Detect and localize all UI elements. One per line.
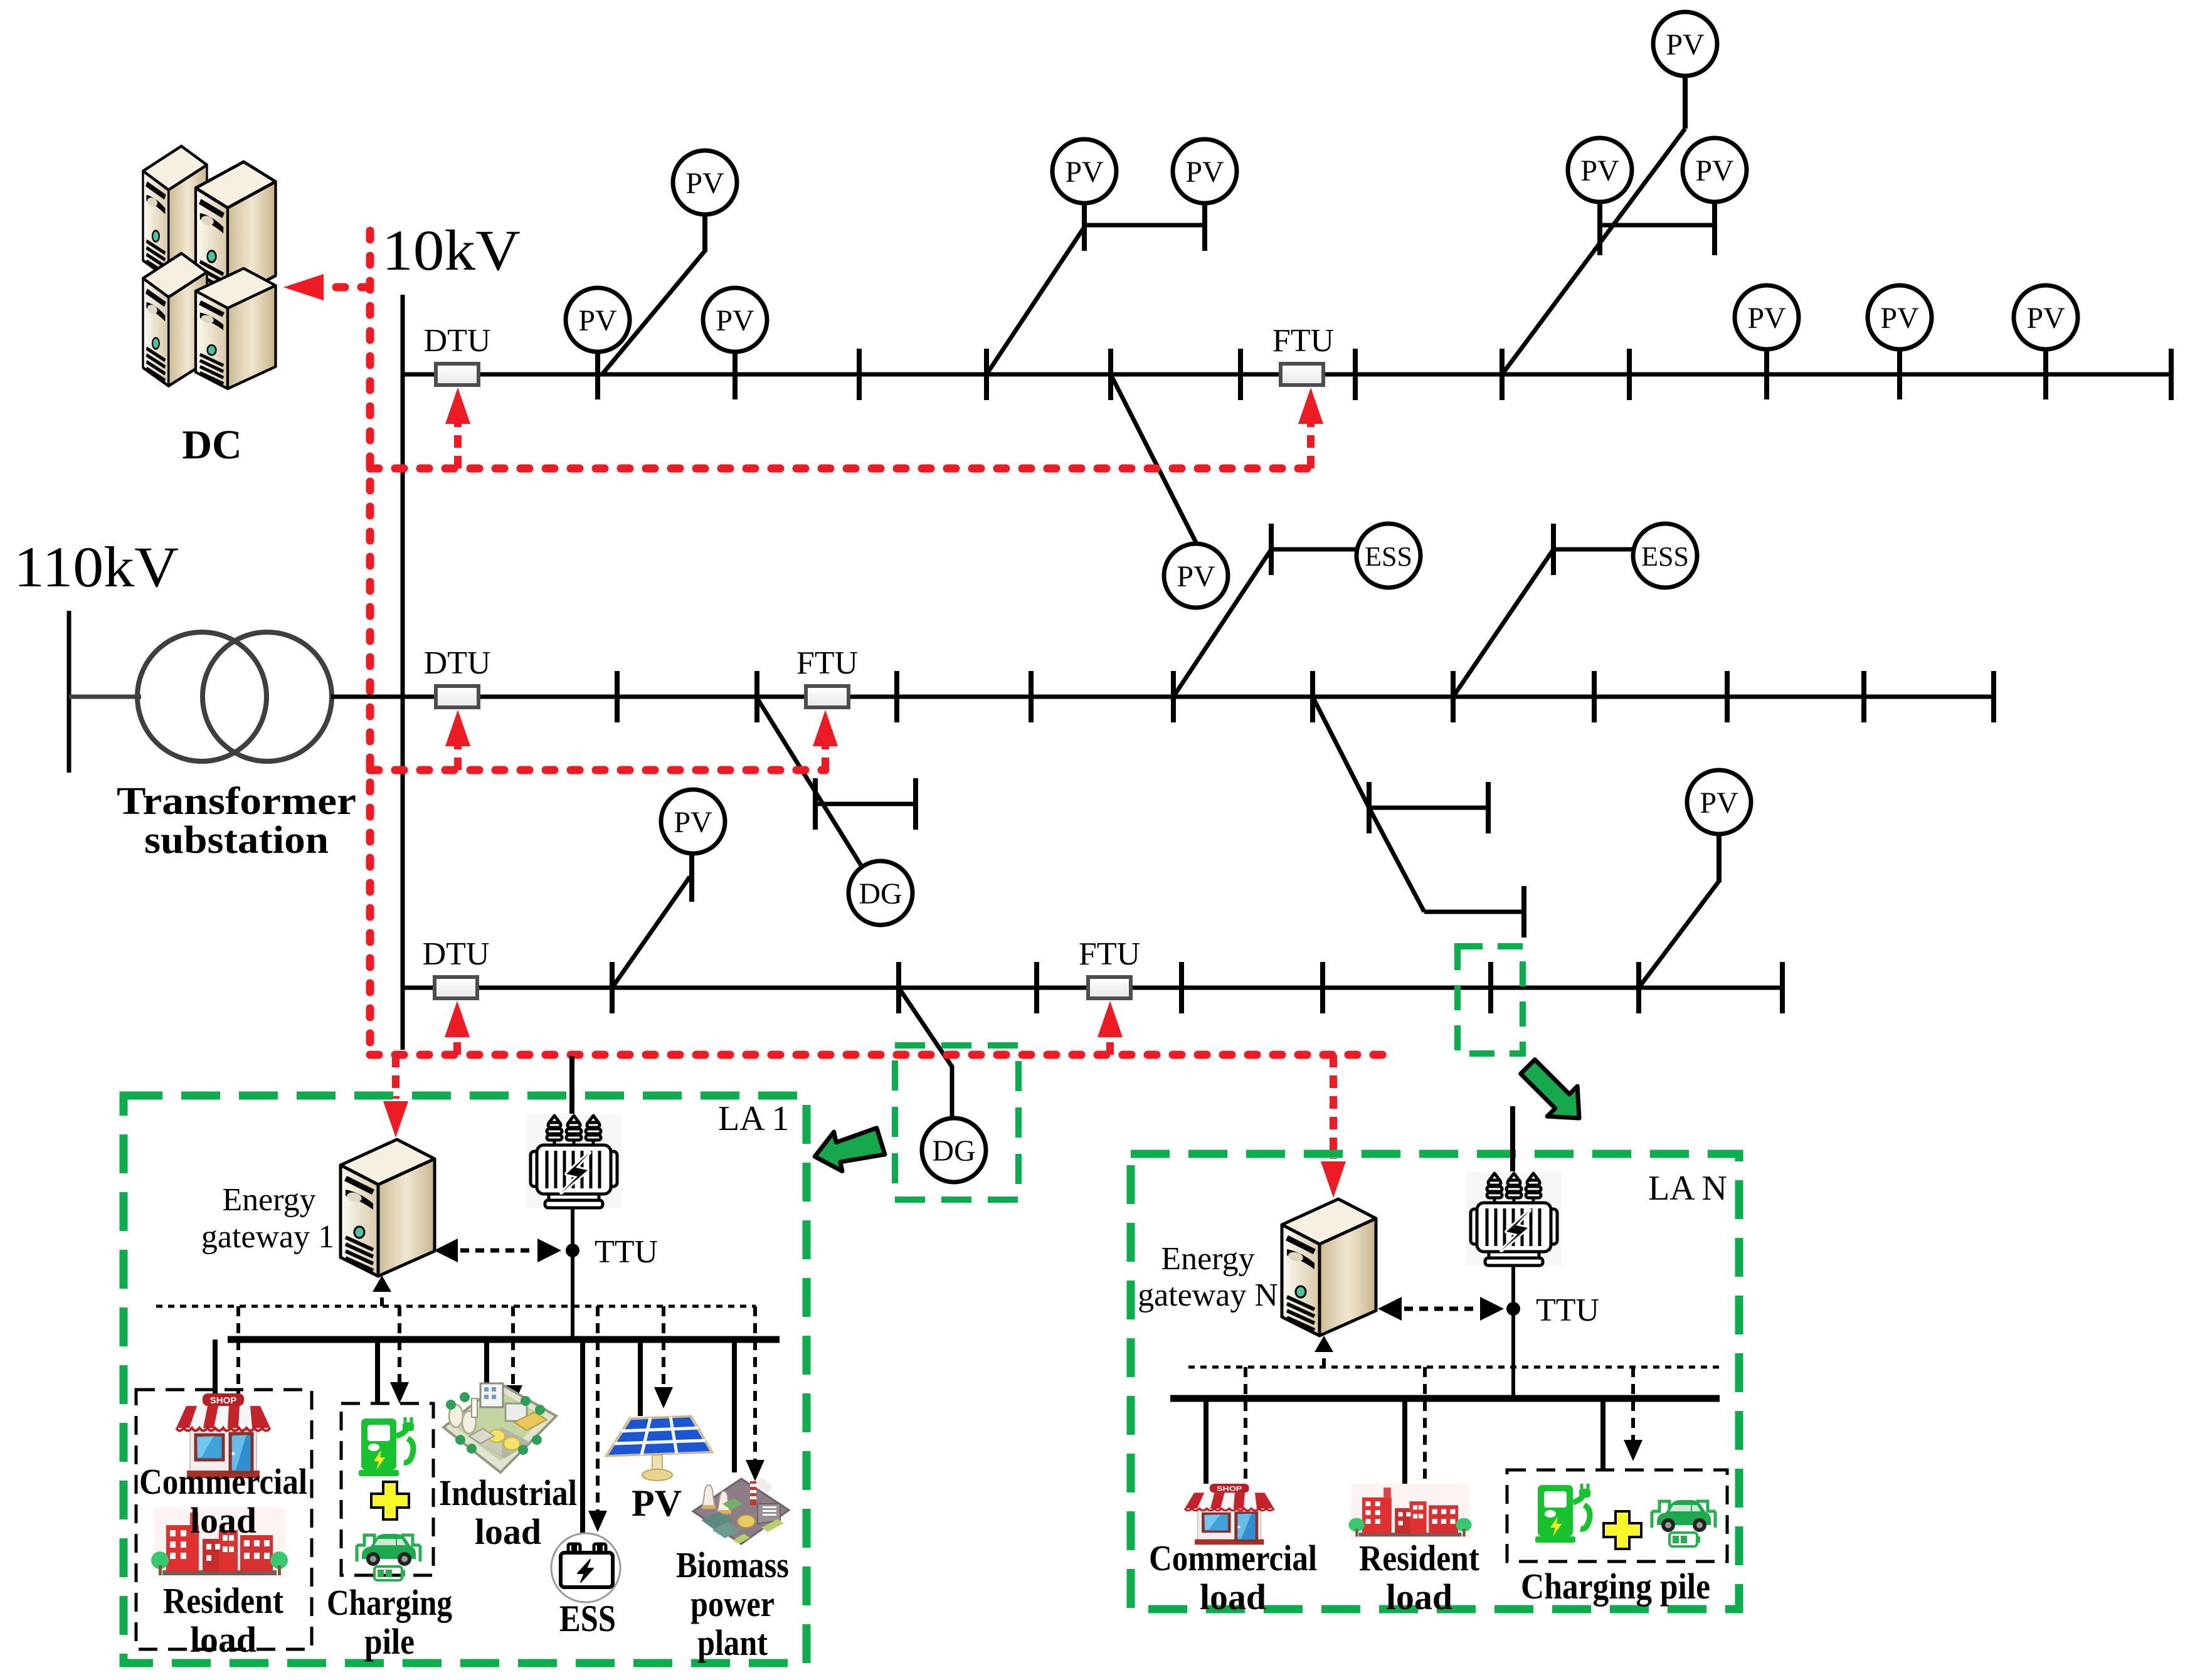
red comm arrow to FTU1 <box>1298 388 1323 468</box>
svg-text:Biomass: Biomass <box>676 1545 789 1585</box>
svg-text:ESS: ESS <box>559 1598 616 1639</box>
DTU box on feeder 2 <box>436 686 479 707</box>
comm drop arrow to industrial LA1 <box>504 1306 522 1407</box>
svg-text:gateway N: gateway N <box>1138 1277 1278 1313</box>
wire: drop to resident load LA N <box>1402 1398 1407 1484</box>
wire: LV bus LA N <box>1170 1395 1720 1402</box>
node tick feeder2 g <box>1452 671 1454 722</box>
wire: ESS2 tie <box>1553 547 1633 552</box>
wire: ESS1 tie <box>1271 547 1357 552</box>
PV unit PV2 <box>673 151 737 214</box>
wire: lateral to PV6 <box>1111 374 1196 542</box>
wire: PV13 stub <box>689 853 694 902</box>
red comm arrow to DC <box>283 274 370 300</box>
PV unit PV6 <box>1164 544 1228 608</box>
wire: drop to biomass plant LA1 <box>732 1339 737 1472</box>
node tick feeder1 g <box>1629 349 1630 400</box>
wire: feeder 1 bus <box>403 372 2171 377</box>
svg-text:110kV: 110kV <box>14 535 179 599</box>
comm double arrow gatewayN-TTU <box>1378 1297 1504 1321</box>
comm drop arrow to PV LA1 <box>654 1306 673 1408</box>
svg-text:DG: DG <box>932 1134 975 1168</box>
PV unit PV4 <box>1052 139 1116 203</box>
PV unit PV7 <box>1653 12 1717 76</box>
comm drop arrow to charging pile LA1 <box>390 1306 409 1403</box>
wire: lateral to ESS1 <box>1173 549 1271 697</box>
node tick ESS2 branch <box>1553 524 1554 575</box>
DTU box on feeder 1 <box>436 364 479 385</box>
comm arrow up to gateway N <box>1315 1336 1333 1367</box>
svg-text:Charging: Charging <box>327 1582 452 1623</box>
wire: PV3 stub <box>733 352 738 399</box>
wire: 110kV bus bar <box>67 611 71 773</box>
comm dotted bus LA N <box>1188 1366 1722 1369</box>
wire: drop to charging pile LA1 <box>375 1339 380 1405</box>
node tick feeder1 a <box>859 349 860 400</box>
node tick branch b3 right <box>1523 886 1525 938</box>
wire: drop to industrial load LA1 <box>484 1339 489 1395</box>
shop icon LA1 <box>176 1393 270 1478</box>
node tick feeder1 d <box>1240 349 1241 400</box>
wire: transformer LA N to LV bus through TTU <box>1511 1265 1515 1398</box>
resident buildings icon LA N <box>1348 1484 1471 1538</box>
plus sign LA1 <box>371 1482 409 1519</box>
svg-text:DG: DG <box>859 877 902 911</box>
wire: PV10 stub <box>1764 349 1769 399</box>
svg-text:FTU: FTU <box>1079 936 1140 972</box>
node tick feeder3 e <box>1322 962 1323 1013</box>
wire: PV1 stub <box>595 352 600 399</box>
wire: PV8 stub <box>1597 202 1602 255</box>
wire: PV4 stub <box>1082 203 1087 251</box>
shop icon LA N <box>1185 1484 1274 1545</box>
comm drop arrow to ESS LA1 <box>588 1306 607 1532</box>
charging pile dashed box LA1 <box>341 1403 433 1575</box>
PV unit PV14 <box>1687 770 1751 834</box>
svg-text:gateway 1: gateway 1 <box>201 1219 334 1255</box>
svg-text:load: load <box>1386 1577 1452 1617</box>
node tick feeder2 b <box>756 671 758 722</box>
svg-text:10kV: 10kV <box>382 218 521 282</box>
svg-text:Industrial: Industrial <box>439 1472 577 1513</box>
EV car icon LA1 <box>357 1534 420 1580</box>
node tick branch b2 left <box>1368 782 1370 833</box>
wire: lateral to PV2 <box>602 251 705 374</box>
distribution transformer LA1 <box>526 1114 622 1208</box>
PV unit PV13 <box>661 790 725 853</box>
resident buildings icon LA1 <box>151 1508 288 1578</box>
green block arrow to LA 1 <box>811 1123 887 1176</box>
svg-text:Transformer: Transformer <box>117 780 356 823</box>
wire: lateral continues to branch b3 <box>1369 808 1424 912</box>
red comm arrow to DTU2 <box>445 710 470 770</box>
comm drop to commercial LA1 <box>236 1306 240 1393</box>
red comm arrow to FTU3 <box>1098 1001 1123 1055</box>
local area LA N boundary (green dashed) <box>1131 1154 1739 1609</box>
svg-text:FTU: FTU <box>796 645 858 681</box>
wire: lateral to ESS2 <box>1453 549 1553 697</box>
wire: feeder3 comm level to transformer LA1 <box>569 1056 574 1117</box>
comm drop to commercial LA N <box>1244 1367 1247 1484</box>
PV unit PV8 <box>1568 138 1632 202</box>
red comm arrow to DTU1 <box>445 388 470 468</box>
node tick feeder3 f (sectionalizer) <box>1490 962 1491 1013</box>
FTU box on feeder 1 <box>1281 364 1323 385</box>
node tick ESS1 branch <box>1271 524 1272 575</box>
red comm backbone vertical <box>366 231 374 1055</box>
wire: lateral drop f to branch b2 <box>1313 697 1369 808</box>
svg-text:LA N: LA N <box>1648 1169 1727 1208</box>
svg-text:load: load <box>475 1511 541 1552</box>
node tick feeder1 f <box>1501 349 1503 400</box>
node tick branch b1 right <box>915 778 916 830</box>
svg-text:load: load <box>190 1500 257 1541</box>
DG unit DG1 <box>849 861 912 925</box>
wire: PV4-PV5 tie <box>1084 223 1205 228</box>
comm drop to resident LA N <box>1423 1367 1427 1484</box>
green block arrow to LA N <box>1513 1052 1594 1133</box>
svg-text:Charging pile: Charging pile <box>1521 1566 1710 1607</box>
node tick feeder3 end <box>1782 962 1783 1013</box>
svg-text:pile: pile <box>364 1621 415 1662</box>
ESS unit ESS1 <box>1357 524 1420 588</box>
svg-text:Resident: Resident <box>163 1580 284 1621</box>
svg-text:Commercial: Commercial <box>1149 1538 1317 1578</box>
wire: lateral to PV13 <box>612 877 690 988</box>
wire: 10kV main vertical bus <box>401 295 405 1050</box>
node tick branch b2 right <box>1488 782 1489 833</box>
svg-text:DTU: DTU <box>424 645 491 681</box>
node tick feeder1 c <box>1110 349 1111 400</box>
wire: feeder 3 bus <box>403 986 1782 990</box>
node tick feeder3 b <box>898 962 899 1013</box>
transformer substation symbol (two circles) <box>137 632 332 761</box>
node tick feeder2 j <box>1863 671 1865 722</box>
svg-text:LA 1: LA 1 <box>718 1099 790 1138</box>
wire: drop into transformer LA N <box>1510 1106 1515 1178</box>
plus sign LA N <box>1604 1511 1641 1549</box>
svg-text:power: power <box>690 1583 775 1624</box>
PV panel icon LA1 <box>606 1416 712 1481</box>
red comm line feeder3 level <box>370 1051 1387 1059</box>
svg-text:plant: plant <box>697 1622 768 1663</box>
wire: 110kV bus to transformer <box>69 695 141 699</box>
node tick feeder2 f <box>1312 671 1313 722</box>
node tick feeder2 h <box>1594 671 1595 722</box>
wire: lateral to DG2 <box>899 988 952 1119</box>
svg-text:load: load <box>190 1619 257 1660</box>
wire: branch tie b3 <box>1424 910 1524 914</box>
wire: transformer LA1 to LV bus through TTU <box>571 1208 574 1339</box>
PV unit PV3 <box>703 288 767 352</box>
ESS battery icon LA1 <box>551 1533 620 1602</box>
charging pile dashed box LA N <box>1507 1470 1727 1561</box>
comm drop arrow to charging pile LA N <box>1624 1367 1642 1461</box>
distribution transformer LA N <box>1466 1171 1562 1265</box>
wire: PV12 stub <box>2043 349 2048 399</box>
PV unit PV12 <box>2014 285 2078 349</box>
TTU node dot LA1 <box>566 1244 579 1257</box>
wire: feeder 2 bus <box>331 695 1994 699</box>
TTU node dot LA N <box>1506 1302 1520 1316</box>
svg-text:Energy: Energy <box>222 1182 315 1218</box>
svg-text:DC: DC <box>182 422 241 468</box>
comm drop arrow to biomass LA1 <box>746 1306 764 1481</box>
wire: drop to commercial load LA N <box>1203 1398 1209 1484</box>
node tick branch b1 left <box>815 778 816 830</box>
comm dotted bus LA1 <box>156 1305 756 1308</box>
wire: drop to commercial load LA1 <box>213 1339 218 1393</box>
wire: PV9 stub <box>1712 202 1717 255</box>
wire: drop to charging pile LA N <box>1600 1398 1605 1470</box>
EV car icon LA N <box>1652 1500 1715 1546</box>
node tick feeder2 end <box>1993 671 1994 722</box>
wire: PV14 stub <box>1717 834 1722 882</box>
node tick feeder3 c <box>1036 962 1037 1013</box>
svg-text:PV: PV <box>632 1482 682 1524</box>
green dashed box around DG2 <box>895 1045 1018 1200</box>
wire: PV2 stub <box>702 214 707 252</box>
node tick feeder3 a <box>611 962 613 1013</box>
red comm line feeder2 level <box>370 766 825 774</box>
DG unit DG2 <box>922 1118 986 1182</box>
wire: lateral to PV4/PV5 pair <box>987 227 1084 374</box>
wire: lateral to PV14 <box>1639 881 1719 988</box>
node tick feeder2 a <box>616 671 618 722</box>
green dashed box around tie switch <box>1457 946 1523 1054</box>
DTU box on feeder 3 <box>435 977 477 998</box>
wire: PV5 stub <box>1202 203 1207 251</box>
PV unit PV11 <box>1868 285 1932 349</box>
commercial+resident dashed box LA1 <box>136 1390 312 1649</box>
svg-text:substation: substation <box>144 819 329 862</box>
PV unit PV5 <box>1173 139 1237 203</box>
energy gateway 1 icon <box>341 1139 435 1276</box>
PV unit PV1 <box>566 288 630 352</box>
node tick feeder2 i <box>1727 671 1728 722</box>
wire: drop to ESS LA1 <box>580 1339 585 1535</box>
PV unit PV9 <box>1683 138 1747 202</box>
wire: branch tie b1 <box>815 802 916 806</box>
red comm arrow to DTU3 <box>445 1001 470 1055</box>
industrial load icon LA1 <box>443 1383 556 1472</box>
red comm arrow down to energy gateway N <box>1321 1055 1346 1198</box>
EV charger icon LA N <box>1535 1484 1590 1543</box>
wire: PV7 stub <box>1683 76 1688 129</box>
PV unit PV10 <box>1735 285 1799 349</box>
comm double arrow gateway1-TTU <box>434 1239 561 1262</box>
svg-text:TTU: TTU <box>595 1234 658 1270</box>
svg-text:Resident: Resident <box>1359 1538 1480 1578</box>
node tick feeder1 b <box>986 349 987 400</box>
svg-text:FTU: FTU <box>1272 323 1334 359</box>
local area LA 1 boundary (green dashed) <box>124 1096 807 1663</box>
svg-text:load: load <box>1200 1577 1266 1617</box>
red comm line feeder1 level <box>370 465 1311 473</box>
svg-text:TTU: TTU <box>1536 1292 1599 1328</box>
EV charger icon LA1 <box>359 1417 414 1476</box>
svg-text:Commercial: Commercial <box>139 1461 307 1502</box>
node tick feeder2 e <box>1173 671 1174 722</box>
FTU box on feeder 3 <box>1088 977 1131 998</box>
data center DC icon (server towers) <box>143 146 276 389</box>
FTU box on feeder 2 <box>806 686 849 707</box>
node tick feeder2 d <box>1030 671 1032 722</box>
red comm arrow to FTU2 <box>813 710 838 770</box>
svg-text:DTU: DTU <box>424 323 491 359</box>
node tick feeder2 c <box>896 671 897 722</box>
red comm arrow down to energy gateway 1 <box>383 1055 408 1138</box>
wire: lateral to PV7 cluster <box>1502 129 1685 374</box>
svg-text:Energy: Energy <box>1161 1241 1254 1277</box>
node tick feeder1 end <box>2171 349 2172 400</box>
comm arrow up to gateway1 <box>373 1276 391 1306</box>
biomass power plant icon LA1 <box>693 1479 789 1544</box>
node tick feeder1 e <box>1355 349 1356 400</box>
ESS unit ESS2 <box>1633 524 1697 588</box>
wire: PV11 stub <box>1897 349 1902 399</box>
wire: PV8-PV9 tie <box>1600 223 1715 228</box>
svg-text:DTU: DTU <box>423 936 490 972</box>
wire: LV bus LA1 <box>228 1336 780 1343</box>
wire: lateral to DG1 <box>757 698 861 865</box>
node tick feeder3 d <box>1181 962 1182 1013</box>
wire: drop to PV LA1 <box>638 1339 643 1416</box>
wire: branch tie b2 <box>1369 806 1488 810</box>
node tick feeder3 g <box>1638 962 1639 1013</box>
energy gateway N icon <box>1282 1199 1376 1336</box>
